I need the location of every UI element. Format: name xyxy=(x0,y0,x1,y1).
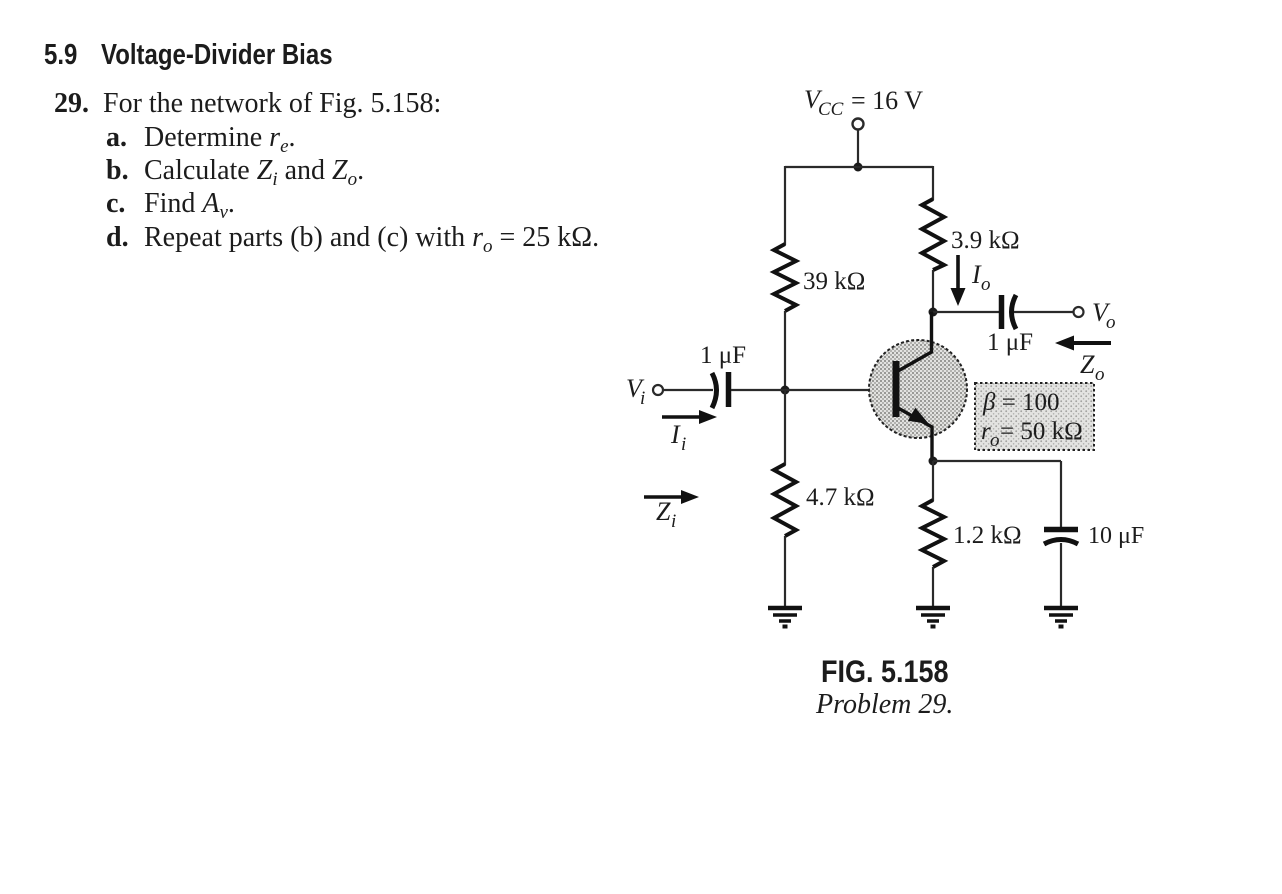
wire R4 to ground xyxy=(932,567,934,606)
ground emitter branch xyxy=(916,608,950,627)
svg-text:3.9 kΩ: 3.9 kΩ xyxy=(951,227,1020,254)
wire rail to R3 xyxy=(932,166,934,200)
resistor R1 39 kOhm xyxy=(774,244,796,311)
wire emitter node right xyxy=(933,460,1061,462)
svg-text:i: i xyxy=(640,388,645,409)
svg-text:CC: CC xyxy=(818,99,844,120)
svg-text:c.: c. xyxy=(106,188,125,219)
svg-text:a.: a. xyxy=(106,122,127,153)
transistor Q1 emitter arrowhead xyxy=(908,408,929,424)
ground base branch xyxy=(768,608,802,627)
input terminal Vi xyxy=(653,385,663,395)
svg-text:1 μF: 1 μF xyxy=(987,329,1033,356)
svg-text:For the network of Fig. 5.158:: For the network of Fig. 5.158: xyxy=(103,88,441,119)
transistor Q1 emitter lead xyxy=(898,408,932,461)
output terminal Vo xyxy=(1074,307,1084,317)
svg-text:10 μF: 10 μF xyxy=(1088,523,1144,549)
svg-text:1.2 kΩ: 1.2 kΩ xyxy=(953,522,1022,549)
svg-text:Z: Z xyxy=(1080,350,1095,379)
svg-text:o: o xyxy=(981,274,991,295)
wire VCC to rail xyxy=(857,130,859,168)
transistor Q1 base bar xyxy=(893,361,900,417)
wire C3 to ground xyxy=(1060,543,1062,606)
svg-text:o: o xyxy=(990,430,1000,451)
wire R2 to ground xyxy=(784,536,786,606)
arrow Zi xyxy=(644,495,688,499)
svg-text:= 50 kΩ: = 50 kΩ xyxy=(1000,418,1083,445)
capacitor C1 1uF xyxy=(712,373,717,408)
wire collector node to C2 xyxy=(933,311,1000,313)
junction VCC rail xyxy=(854,163,863,172)
arrow Zo xyxy=(1066,341,1111,345)
svg-text:FIG. 5.158: FIG. 5.158 xyxy=(821,654,949,690)
wire R3 to collector node xyxy=(932,270,934,312)
svg-text:29.: 29. xyxy=(54,88,89,119)
node base junction xyxy=(781,386,790,395)
section heading 5.9 Voltage-Divider Bias xyxy=(44,38,333,71)
node collector junction xyxy=(929,308,938,317)
transistor Q1 collector lead xyxy=(898,312,932,371)
svg-text:5.9: 5.9 xyxy=(44,38,77,71)
svg-text:I: I xyxy=(670,420,681,449)
svg-text:39 kΩ: 39 kΩ xyxy=(803,268,865,295)
wire top rail xyxy=(785,166,933,168)
wire emitter node to R4 xyxy=(932,461,934,501)
VCC terminal xyxy=(853,119,864,130)
svg-text:d.: d. xyxy=(106,222,129,253)
svg-text:Z: Z xyxy=(656,497,671,526)
svg-text:o: o xyxy=(1095,364,1105,385)
wire base node to R2 xyxy=(784,390,786,465)
resistor R3 3.9 kOhm xyxy=(922,199,944,270)
svg-text:b.: b. xyxy=(106,155,129,186)
svg-text:Find Av.: Find Av. xyxy=(144,188,235,223)
svg-text:= 16 V: = 16 V xyxy=(851,86,923,115)
box beta ro xyxy=(975,383,1094,450)
resistor R4 1.2 kOhm xyxy=(922,500,944,567)
wire R1 to base node xyxy=(784,311,786,390)
svg-text:i: i xyxy=(681,434,686,455)
svg-text:Voltage-Divider Bias: Voltage-Divider Bias xyxy=(101,38,333,71)
resistor R2 4.7 kOhm xyxy=(774,464,796,536)
wire rail to R1 xyxy=(784,166,786,245)
arrow Io xyxy=(956,255,960,295)
wire C2 to Vo xyxy=(1014,311,1073,313)
svg-text:4.7 kΩ: 4.7 kΩ xyxy=(806,484,875,511)
svg-text:Determine re.: Determine re. xyxy=(144,122,296,157)
svg-text:Repeat parts (b) and (c) with: Repeat parts (b) and (c) with ro = 25 kΩ… xyxy=(144,222,599,257)
node emitter junction xyxy=(929,457,938,466)
svg-text:1 μF: 1 μF xyxy=(700,342,746,369)
wire C1 to base xyxy=(731,389,894,391)
wire Vi to C1 xyxy=(663,389,713,391)
svg-text:Problem 29.: Problem 29. xyxy=(815,689,953,720)
caption FIG. 5.158 xyxy=(821,654,949,690)
svg-text:o: o xyxy=(1106,312,1116,333)
transistor Q1 body xyxy=(869,340,967,438)
ground bypass branch xyxy=(1044,608,1078,627)
capacitor C2 1uF output xyxy=(999,295,1005,329)
arrow Ii xyxy=(662,415,706,419)
capacitor C3 10uF xyxy=(1044,527,1078,533)
svg-text:Calculate Zi and Zo.: Calculate Zi and Zo. xyxy=(144,155,364,190)
svg-text:i: i xyxy=(671,511,676,532)
wire emitter right branch down to C3 xyxy=(1060,461,1062,528)
svg-text:β = 100: β = 100 xyxy=(982,389,1060,416)
